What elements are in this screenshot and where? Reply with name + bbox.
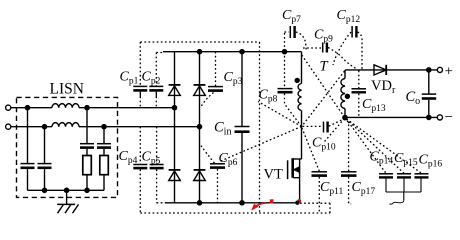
capacitor Co: [422, 70, 436, 118]
svg-text:LISN: LISN: [50, 81, 84, 98]
resistor LISN R2: [100, 156, 109, 191]
node LISN bottom 3: [85, 188, 89, 192]
svg-text:Cp7: Cp7: [282, 8, 301, 25]
labels for parasitic capacitors: [119, 8, 443, 197]
node secondary polarity dot: [345, 94, 349, 98]
ground (earth bus for Cp14-16): [386, 179, 421, 205]
wire dotted bottom step: [300, 203, 330, 213]
node bottom-line RC tap: [102, 125, 106, 129]
capacitor Cp8: [278, 52, 302, 127]
svg-text:Cin: Cin: [214, 120, 231, 138]
wire LISN internal bottom: [28, 189, 105, 191]
diode D4 (bottom right): [194, 170, 206, 181]
svg-text:Cp15: Cp15: [394, 151, 418, 168]
LISN dashed box: [17, 97, 118, 197]
wire dotted bottom bus: [140, 212, 330, 214]
capacitor Cp15: [346, 119, 411, 178]
svg-text:Cp11: Cp11: [320, 180, 343, 197]
node output + junction: [427, 68, 431, 72]
terminal L (top input): [6, 105, 11, 110]
node rail bridge right top: [197, 50, 201, 54]
capacitor Cp10: [303, 119, 345, 133]
red dash at Cp17 lead: [350, 203, 352, 205]
node bridge left AC: [172, 106, 176, 110]
svg-text:−: −: [445, 110, 453, 126]
svg-text:Co: Co: [406, 89, 421, 107]
svg-text:Cp2: Cp2: [142, 70, 161, 87]
capacitor Cp2: [149, 53, 163, 108]
terminal N (bottom input): [6, 124, 11, 129]
capacitor Cp1: [133, 42, 147, 108]
wire dashed coupling X1: [302, 55, 344, 117]
diode VDr: [374, 65, 386, 75]
wire dashed N2 short ray: [325, 119, 345, 142]
wire bottom line left: [11, 126, 52, 128]
svg-text:Cp13: Cp13: [362, 97, 386, 114]
node primary polarity dot: [295, 78, 299, 82]
node output - junction: [427, 115, 431, 119]
node MOSFET source junction (red highlighted): [297, 199, 301, 203]
wire dotted right drop: [259, 42, 261, 213]
capacitor Cp5: [150, 127, 166, 203]
wire bridge left rail: [174, 52, 176, 203]
capacitor LISN C4 (bottom RC branch): [97, 127, 111, 156]
wire secondary top rail: [345, 69, 437, 71]
ground (LISN chassis): [57, 190, 78, 213]
capacitor Cp7: [285, 26, 307, 51]
wire dashed coupling X2: [302, 71, 344, 126]
wire dashed node ray up-left: [258, 102, 302, 127]
capacitor Cp11: [302, 128, 327, 213]
node top-line cap tap: [25, 106, 29, 110]
capacitor Cin: [235, 52, 250, 203]
red current-path arrow: [252, 203, 266, 210]
node LISN bottom 1: [42, 188, 46, 192]
node bottom rail Cin: [240, 201, 244, 205]
wire secondary bottom rail: [345, 116, 437, 118]
capacitor LISN C3 (top RC branch): [80, 108, 94, 156]
transformer secondary winding: [341, 70, 345, 118]
inductor L1: [52, 104, 79, 108]
terminal output -: [437, 115, 442, 120]
diode D3 (bottom left): [169, 170, 181, 181]
capacitor LISN C1: [21, 108, 35, 191]
node rail Cp7/Cp8: [282, 50, 286, 54]
capacitor Cp12: [333, 26, 362, 70]
node bridge right AC: [197, 125, 201, 129]
capacitor Cp6: [201, 146, 225, 203]
resistor LISN R1: [83, 156, 92, 191]
capacitor Cp3: [201, 52, 223, 107]
wire bottom line right: [79, 126, 200, 128]
capacitor Cp13: [352, 71, 367, 118]
wire DC- bottom rail: [166, 202, 298, 204]
svg-text:Cp3: Cp3: [224, 70, 243, 87]
capacitor Cp9: [303, 43, 358, 70]
node top-line RC tap: [85, 106, 89, 110]
wire DC+ top rail: [163, 51, 302, 53]
svg-text:Cp6: Cp6: [219, 151, 238, 168]
svg-text:Cp1: Cp1: [120, 70, 139, 87]
red marker square: [270, 199, 274, 203]
terminal output +: [437, 67, 442, 72]
capacitor Cp4: [133, 127, 147, 213]
diode D2 (top right): [194, 85, 206, 96]
svg-text:Cp12: Cp12: [337, 8, 361, 25]
wire top line left: [11, 107, 52, 109]
svg-text:Cp17: Cp17: [352, 180, 376, 197]
wire top line right: [79, 107, 175, 109]
node LISN bottom 2: [65, 188, 69, 192]
wire bridge right rail: [199, 52, 201, 203]
diode D1 (top left): [169, 85, 181, 96]
wire dashed node ray to Cp6: [220, 127, 302, 162]
inductor L2: [52, 123, 79, 127]
transformer primary winding: [298, 52, 301, 159]
node rail Cin top: [240, 50, 244, 54]
node bottom rail bridge right: [197, 201, 201, 205]
svg-text:Cp9: Cp9: [314, 28, 333, 45]
svg-text:T: T: [320, 59, 329, 75]
capacitor LISN C2: [38, 127, 52, 191]
capacitor Cp17: [341, 119, 357, 204]
transistor VT (MOSFET): [288, 158, 302, 203]
svg-text:VDr: VDr: [371, 78, 396, 96]
node bottom-line cap tap: [42, 125, 46, 129]
node secondary bottom junction: [343, 115, 347, 119]
svg-text:Cp5: Cp5: [142, 150, 161, 167]
svg-text:Cp14: Cp14: [370, 150, 394, 167]
svg-text:+: +: [445, 64, 453, 80]
capacitor Cp16: [347, 119, 429, 177]
svg-text:Cp10: Cp10: [312, 136, 336, 153]
wire dotted top bus: [140, 41, 259, 43]
svg-text:Cp16: Cp16: [419, 153, 443, 170]
svg-text:VT: VT: [264, 167, 283, 183]
svg-text:Cp8: Cp8: [259, 88, 278, 105]
capacitor Cp14: [346, 119, 393, 178]
svg-text:Cp4: Cp4: [119, 149, 138, 166]
